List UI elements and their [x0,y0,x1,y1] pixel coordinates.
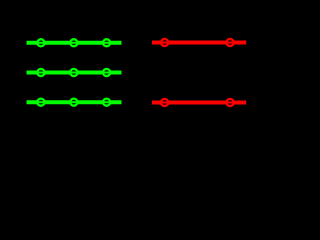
wire net N2 (green, middle row) [27,71,122,75]
node J10 on net N4 [160,39,170,46]
node J9 on net N3 [102,99,112,106]
node J7 on net N3 [36,99,46,106]
node J13 on net N5 [225,99,235,106]
node J5 on net N2 [69,69,79,76]
wire net N3 (green, bottom row) [27,100,122,104]
wire net N5 (red, bottom row) [152,101,246,105]
wire net N4 (red, top row) [152,41,246,45]
node J1 on net N1 [36,39,46,46]
node J12 on net N5 [160,99,170,106]
node J3 on net N1 [102,39,112,46]
node J4 on net N2 [36,69,46,76]
node J11 on net N4 [225,39,235,46]
node J6 on net N2 [102,69,112,76]
wire net N1 (green, top row) [27,41,122,45]
node J2 on net N1 [69,39,79,46]
node J8 on net N3 [69,99,79,106]
